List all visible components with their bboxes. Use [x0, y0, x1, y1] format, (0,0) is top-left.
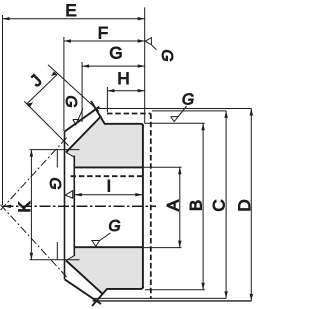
- tooth root line lower: [66, 261, 103, 294]
- heel tip line bottom D: [93, 300, 252, 302]
- hub back face: [142, 126, 144, 288]
- crown line top: [97, 108, 251, 110]
- gear body section fill lower: [66, 247, 143, 294]
- extension hub bottom to B: [145, 289, 205, 291]
- gear body section fill upper: [66, 116, 143, 167]
- hidden tip extension to C: [152, 110, 226, 112]
- surface mark G2 on crown line: [171, 106, 187, 121]
- svg-text:K: K: [15, 201, 34, 213]
- dimension I line: [75, 194, 143, 196]
- bore bottom line: [75, 246, 143, 248]
- svg-text:F: F: [98, 24, 108, 43]
- dimension A line: [179, 167, 181, 247]
- apex arrow on axis: [3, 205, 12, 208]
- dimension B line: [202, 123, 204, 289]
- hub top face: [104, 124, 143, 127]
- dimension K line: [30, 150, 32, 260]
- hub bottom face: [92, 286, 143, 306]
- dimension G line: [82, 65, 145, 67]
- dimension J line: [27, 75, 57, 104]
- dimension C line: [225, 111, 227, 299]
- hub front face: [73, 156, 75, 257]
- hidden back line vertical: [150, 114, 152, 300]
- centerline axis: [3, 205, 157, 207]
- front face of teeth: [64, 132, 66, 280]
- surface mark G1 triangle at F extension: [145, 38, 156, 50]
- svg-text:B: B: [187, 200, 206, 211]
- svg-text:G: G: [158, 49, 175, 61]
- front cone chain line upper: [1, 136, 69, 210]
- svg-text:I: I: [107, 176, 112, 195]
- svg-text:G: G: [46, 177, 63, 189]
- dimension D line: [250, 109, 252, 301]
- heel tip line bottom C: [94, 297, 226, 299]
- svg-text:G: G: [182, 92, 194, 109]
- extension hub top to B: [145, 122, 205, 124]
- grey edge toe lower: [66, 256, 74, 261]
- toe step line upper: [56, 150, 58, 168]
- extension line right for EFGH: [144, 7, 146, 123]
- dimension J extension crown: [48, 65, 99, 112]
- svg-text:G: G: [62, 95, 79, 107]
- svg-text:E: E: [65, 1, 76, 20]
- dimension J extension toe: [24, 101, 68, 145]
- svg-text:G: G: [109, 44, 122, 63]
- surface mark G5 at bore bottom: [92, 233, 111, 247]
- tooth tip line upper: [65, 107, 100, 132]
- keyway hidden line: [71, 175, 143, 177]
- dimension K extension top: [30, 149, 80, 151]
- grey edge toe upper: [66, 152, 74, 157]
- hidden tip circle top: [107, 113, 151, 115]
- dimension E line: [3, 18, 145, 20]
- svg-text:H: H: [117, 69, 129, 88]
- dimension K extension bottom: [30, 259, 80, 261]
- surface mark G3 check at tooth face: [73, 109, 83, 125]
- tooth root line upper: [66, 116, 101, 152]
- dimension H line: [107, 90, 144, 92]
- back cone face upper: [91, 101, 105, 124]
- toe step line lower: [56, 242, 58, 260]
- dimension H extension left: [106, 87, 108, 112]
- svg-text:D: D: [235, 199, 254, 211]
- dimension E extension left: [2, 15, 4, 205]
- svg-text:G: G: [108, 218, 120, 235]
- svg-text:A: A: [163, 199, 182, 211]
- dimension F extension left: [63, 37, 65, 131]
- dimension G extension left: [81, 62, 83, 122]
- front cone chain line lower: [1, 205, 69, 279]
- bore top line: [75, 166, 143, 168]
- extension bore bottom to A: [144, 247, 182, 249]
- tooth tip line lower: [65, 279, 101, 304]
- extension bore top to A: [144, 166, 182, 168]
- dimension F line: [64, 40, 145, 42]
- svg-text:J: J: [26, 71, 45, 90]
- surface mark G4 triangle at front face: [65, 191, 72, 199]
- svg-text:C: C: [210, 199, 229, 211]
